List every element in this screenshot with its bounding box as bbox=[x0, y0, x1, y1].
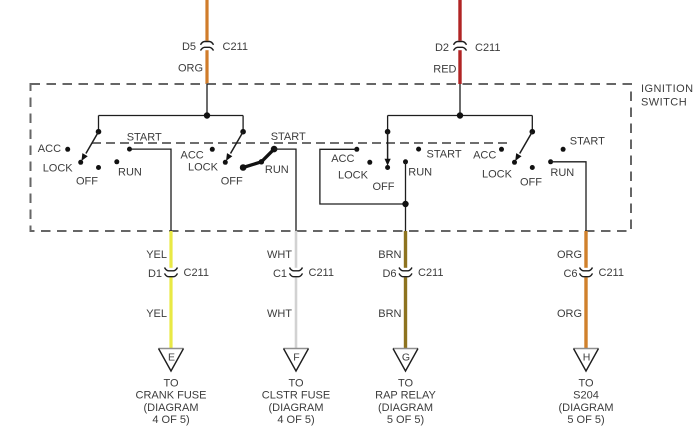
svg-text:RED: RED bbox=[433, 63, 456, 75]
svg-text:START: START bbox=[427, 148, 462, 160]
svg-text:RUN: RUN bbox=[118, 166, 142, 178]
svg-text:TO: TO bbox=[398, 377, 414, 389]
svg-text:YEL: YEL bbox=[146, 249, 167, 261]
svg-text:4 OF 5): 4 OF 5) bbox=[277, 414, 314, 426]
svg-text:OFF: OFF bbox=[373, 181, 395, 193]
svg-text:OFF: OFF bbox=[76, 175, 98, 187]
svg-text:C211: C211 bbox=[184, 267, 209, 279]
svg-text:ACC: ACC bbox=[38, 143, 61, 155]
switch 2 contact OFF bbox=[241, 165, 246, 170]
branch E: YEL wire bbox=[169, 231, 172, 268]
switch pole 3 lever to OFF bbox=[387, 132, 389, 160]
switch 2 bridge bar OFF-RUN-START bbox=[243, 149, 274, 167]
wire: switch 3 ACC branch bbox=[320, 149, 406, 204]
svg-text:C6: C6 bbox=[563, 268, 577, 280]
svg-text:YEL: YEL bbox=[146, 308, 167, 320]
svg-text:H: H bbox=[583, 351, 591, 363]
connector C211 (D5) symbol bbox=[201, 42, 214, 51]
svg-text:(DIAGRAM: (DIAGRAM bbox=[144, 402, 199, 414]
connector C211 (D2) symbol bbox=[454, 42, 467, 51]
svg-text:LOCK: LOCK bbox=[338, 170, 369, 182]
svg-text:C211: C211 bbox=[418, 267, 443, 279]
switch 1 contact OFF bbox=[96, 165, 101, 170]
svg-text:5 OF 5): 5 OF 5) bbox=[387, 414, 424, 426]
svg-text:WHT: WHT bbox=[267, 249, 292, 261]
svg-text:(DIAGRAM: (DIAGRAM bbox=[378, 402, 433, 414]
branch H: ORG wire bbox=[584, 231, 587, 268]
switch pole 1: stub bbox=[98, 116, 100, 132]
switch 4 contact ACC bbox=[499, 147, 504, 152]
switch 1 contact ACC bbox=[65, 147, 70, 152]
switch pole 1 lever to LOCK bbox=[86, 132, 99, 154]
svg-text:START: START bbox=[570, 136, 605, 148]
terminal triangle E bbox=[159, 348, 184, 350]
svg-text:TO: TO bbox=[578, 377, 594, 389]
svg-text:RUN: RUN bbox=[550, 167, 574, 179]
switch 2 contact ACC bbox=[210, 147, 215, 152]
ignition switch enclosure (dashed box) bbox=[31, 84, 632, 231]
svg-text:D5: D5 bbox=[182, 41, 196, 53]
branch F: WHT wire bbox=[295, 231, 298, 268]
junction switch 3 output bbox=[402, 201, 408, 207]
switch 1 contact LOCK bbox=[78, 160, 83, 165]
switch 1 contact RUN bbox=[114, 159, 119, 164]
switch 3 contact START bbox=[416, 147, 421, 152]
switch 2 contact LOCK bbox=[223, 160, 228, 165]
svg-text:ORG: ORG bbox=[178, 63, 203, 75]
svg-text:RUN: RUN bbox=[265, 164, 289, 176]
switch pole 2 lever to LOCK bbox=[231, 132, 244, 154]
switch 1 contact START bbox=[127, 147, 132, 152]
junction right bus bbox=[457, 112, 463, 118]
switch pole 2: stub bbox=[242, 116, 244, 132]
svg-text:START: START bbox=[127, 132, 162, 144]
svg-text:4 OF 5): 4 OF 5) bbox=[152, 414, 189, 426]
svg-text:CRANK FUSE: CRANK FUSE bbox=[136, 390, 207, 402]
svg-text:LOCK: LOCK bbox=[43, 162, 74, 174]
connector C211 (D6) symbol bbox=[399, 268, 412, 277]
svg-text:TO: TO bbox=[163, 377, 179, 389]
svg-text:CLSTR FUSE: CLSTR FUSE bbox=[262, 390, 330, 402]
switch pole 3 pivot bbox=[385, 129, 391, 135]
svg-text:START: START bbox=[271, 131, 306, 143]
svg-text:TO: TO bbox=[288, 377, 304, 389]
svg-text:F: F bbox=[293, 351, 299, 363]
wire: switch 4 RUN output bbox=[551, 162, 586, 231]
branch G: BRN wire bbox=[404, 231, 407, 268]
svg-text:C1: C1 bbox=[273, 268, 287, 280]
switch 4 contact OFF bbox=[530, 165, 535, 170]
svg-text:C211: C211 bbox=[599, 267, 624, 279]
svg-text:OFF: OFF bbox=[221, 175, 243, 187]
junction left bus bbox=[204, 112, 210, 118]
svg-text:C211: C211 bbox=[223, 41, 248, 53]
svg-text:ACC: ACC bbox=[181, 150, 204, 162]
switch 2 contact RUN bbox=[259, 159, 264, 164]
wire: switch 2 START output bbox=[274, 149, 296, 231]
svg-text:D2: D2 bbox=[435, 42, 449, 54]
switch 3 contact LOCK bbox=[367, 160, 372, 165]
terminal triangle F bbox=[284, 348, 309, 350]
wire: ORG feed drop inside box bbox=[206, 84, 208, 116]
svg-text:E: E bbox=[168, 351, 175, 363]
connector C211 (C6) symbol bbox=[580, 268, 593, 277]
switch 2 contact START bbox=[272, 147, 277, 152]
svg-text:ACC: ACC bbox=[331, 153, 354, 165]
svg-text:5 OF 5): 5 OF 5) bbox=[567, 414, 604, 426]
svg-text:S204: S204 bbox=[573, 390, 599, 402]
svg-text:G: G bbox=[402, 351, 410, 363]
wire ORG feed (top) bbox=[205, 0, 208, 41]
svg-text:C211: C211 bbox=[475, 42, 500, 54]
terminal triangle G bbox=[393, 348, 418, 350]
switch 4 contact LOCK bbox=[512, 160, 517, 165]
switch 4 contact START bbox=[561, 147, 566, 152]
switch 3 contact OFF bbox=[385, 165, 390, 170]
accessory position dashed line bbox=[92, 142, 512, 144]
switch 4 contact RUN bbox=[548, 159, 553, 164]
terminal triangle H bbox=[574, 348, 599, 350]
wire: switch 3 RUN drop bbox=[405, 162, 407, 231]
svg-text:BRN: BRN bbox=[378, 308, 401, 320]
wire: RED feed drop inside box bbox=[459, 84, 461, 116]
svg-text:ORG: ORG bbox=[557, 249, 582, 261]
svg-text:WHT: WHT bbox=[267, 308, 292, 320]
wire RED feed (top) bbox=[458, 0, 461, 41]
svg-text:D1: D1 bbox=[148, 268, 162, 280]
svg-text:(DIAGRAM: (DIAGRAM bbox=[269, 402, 324, 414]
wire: left bus bbox=[99, 115, 244, 117]
svg-text:LOCK: LOCK bbox=[482, 169, 513, 181]
svg-text:ACC: ACC bbox=[473, 150, 496, 162]
switch pole 4: stub bbox=[531, 116, 533, 132]
svg-text:LOCK: LOCK bbox=[188, 162, 219, 174]
svg-text:RAP RELAY: RAP RELAY bbox=[375, 390, 436, 402]
wire: switch 1 START output bbox=[130, 149, 172, 231]
switch 3 contact ACC bbox=[354, 147, 359, 152]
switch pole 4 pivot bbox=[530, 129, 536, 135]
svg-text:RUN: RUN bbox=[408, 167, 432, 179]
svg-text:D6: D6 bbox=[382, 268, 396, 280]
svg-text:BRN: BRN bbox=[378, 249, 401, 261]
connector C211 (D1) symbol bbox=[165, 268, 178, 277]
switch pole 3: stub bbox=[387, 116, 389, 132]
wire: right bus bbox=[388, 115, 533, 117]
svg-text:IGNITION: IGNITION bbox=[641, 83, 694, 95]
svg-text:C211: C211 bbox=[309, 267, 334, 279]
svg-text:SWITCH: SWITCH bbox=[641, 97, 687, 109]
switch 3 contact RUN bbox=[403, 159, 408, 164]
svg-text:ORG: ORG bbox=[557, 308, 582, 320]
switch pole 1 pivot bbox=[96, 129, 102, 135]
svg-text:(DIAGRAM: (DIAGRAM bbox=[559, 402, 614, 414]
switch pole 4 lever to LOCK bbox=[520, 132, 533, 154]
svg-text:OFF: OFF bbox=[520, 177, 542, 189]
connector C211 (C1) symbol bbox=[290, 268, 303, 277]
switch pole 2 pivot bbox=[240, 129, 246, 135]
